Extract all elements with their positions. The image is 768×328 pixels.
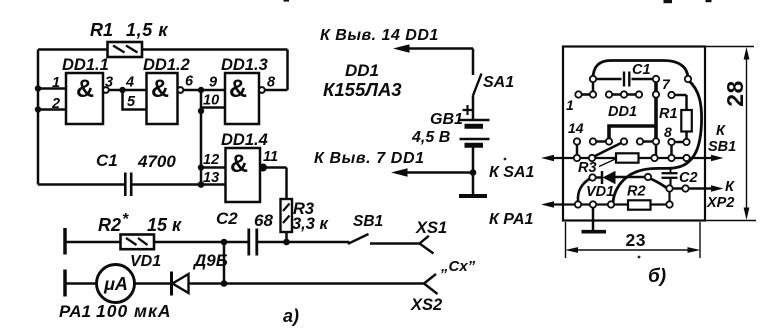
label SB1 [353, 213, 383, 230]
pads misc [574, 76, 691, 208]
trace left S curve [578, 178, 593, 205]
wire pin2 [38, 108, 66, 111]
wire pin11 to R3 [266, 168, 287, 200]
trace row B links [593, 140, 656, 143]
capacitor C1 [125, 173, 131, 197]
label uA [103, 274, 128, 294]
svg-text:3,3 к: 3,3 к [292, 215, 330, 233]
pin labels 4 5 [125, 75, 136, 111]
svg-text:μА: μА [103, 274, 128, 294]
wire C1 row pin13 [38, 183, 226, 186]
pin labels 6 9 [185, 74, 217, 91]
gate DD1.3 [225, 73, 265, 124]
arrow to vyv14 [393, 44, 410, 52]
trace pin1-pin2 link [579, 93, 594, 96]
svg-text:28: 28 [722, 80, 748, 107]
resistor R1 [108, 42, 143, 57]
label 28 [722, 80, 748, 107]
label VD1 Д9Б [130, 251, 228, 270]
trace R3 row / K SB1 [548, 157, 712, 159]
wire to pin14 arrow [406, 47, 473, 50]
svg-text:6: 6 [185, 74, 194, 90]
arrow K PA1 [541, 201, 554, 208]
svg-text:SA1: SA1 [483, 74, 514, 91]
trace C1 row [593, 78, 656, 81]
svg-text:XS1: XS1 [415, 219, 447, 237]
pcb pin labels [566, 76, 672, 140]
label SA1 [483, 74, 514, 91]
wire R3 bottom [285, 232, 288, 242]
label DD1.2 [143, 56, 190, 103]
svg-text:DD1: DD1 [345, 61, 379, 80]
svg-text:9: 9 [209, 75, 217, 91]
diode VD1 pcb [593, 171, 616, 184]
wire pin8 [265, 89, 288, 92]
svg-text:К: К [725, 179, 735, 195]
gate DD1.1 [66, 73, 109, 124]
svg-text:68: 68 [254, 211, 273, 230]
wire pin1 [38, 87, 66, 90]
label DD1.4 [221, 131, 268, 178]
label DD1.3 [221, 56, 268, 103]
svg-text:&: & [151, 75, 169, 103]
node pin3 junction [119, 87, 125, 93]
pin label 11 [263, 149, 278, 165]
label GB1 4,5 B [411, 111, 463, 146]
svg-text:VD1: VD1 [130, 253, 161, 270]
svg-text:К Выв. 14 DD1: К Выв. 14 DD1 [320, 27, 439, 44]
svg-text:&: & [230, 150, 248, 178]
svg-text:12: 12 [203, 152, 219, 168]
svg-text:а): а) [283, 306, 299, 326]
trace R2 right riser [668, 189, 670, 205]
label K SA1 [489, 164, 535, 181]
svg-text:R2: R2 [627, 184, 646, 200]
node center rail [198, 108, 204, 114]
gate DD1.2 [147, 73, 184, 124]
board outline [563, 47, 705, 221]
svg-text:С2: С2 [679, 170, 698, 186]
label C1 pcb [632, 62, 651, 78]
wire left rail [37, 50, 40, 185]
svg-text:GB1: GB1 [430, 111, 463, 128]
label XS2 [410, 296, 442, 314]
svg-text:ХР2: ХР2 [706, 195, 734, 211]
label VD1 pcb [586, 184, 614, 200]
svg-text:С1: С1 [96, 151, 118, 170]
pin labels 12 13 [203, 152, 219, 186]
svg-text:R1: R1 [90, 20, 113, 40]
terminal bar wire2 [63, 270, 67, 297]
svg-text:4: 4 [125, 75, 134, 91]
label C2 pcb [679, 170, 698, 186]
meter PA1 [97, 265, 135, 303]
resistor R2 [121, 235, 155, 250]
trace top arc [593, 61, 688, 80]
label K PA1 [489, 211, 534, 228]
connector XS1 [420, 236, 434, 254]
svg-text:DD1.3: DD1.3 [221, 56, 268, 74]
label C2 68 [216, 209, 273, 230]
svg-text:23: 23 [626, 230, 646, 250]
node C1 rail junction [198, 181, 205, 188]
wire PA1 to VD1 [135, 282, 172, 285]
resistor R2 pcb [628, 200, 651, 209]
trace pins 3-4-5 link [609, 93, 639, 96]
svg-text:10: 10 [203, 93, 219, 109]
svg-text:*: * [122, 211, 129, 228]
wire to pin7 arrow [404, 171, 473, 174]
label DD1 K155LA3 [323, 61, 402, 100]
wire pin5 branch [123, 90, 147, 110]
node VD1 branch top [221, 239, 228, 246]
stray dot near K [504, 158, 507, 161]
label K vyv 7 DD1 [314, 150, 425, 167]
label b) [648, 266, 666, 287]
arrow K SA1 [541, 155, 554, 162]
svg-text:15 к: 15 к [147, 215, 182, 235]
gate DD1.4 [226, 148, 267, 202]
svg-text:К: К [716, 123, 726, 139]
wire VD1 branch [223, 242, 226, 284]
terminal bar wire1 [63, 228, 67, 255]
svg-text:б): б) [648, 266, 666, 287]
trace K PA1 row [548, 203, 670, 205]
svg-text:1: 1 [52, 75, 60, 91]
wire top rail [38, 50, 288, 91]
label R1 pcb [659, 106, 678, 122]
ground [582, 205, 607, 232]
wire R2 row [65, 241, 349, 244]
wire pin3 to pin4 [109, 89, 147, 92]
label a) [283, 306, 299, 326]
stray mark 3 [706, 0, 712, 2]
label R1 1,5 к [90, 20, 168, 40]
svg-text:DD1.1: DD1.1 [62, 56, 109, 74]
svg-text:3: 3 [105, 75, 113, 91]
svg-text:4700: 4700 [137, 152, 176, 171]
svg-text:К РА1: К РА1 [489, 211, 534, 228]
svg-text:VD1: VD1 [586, 184, 614, 200]
svg-text:„Сх”: „Сх” [440, 258, 476, 275]
resistor R1 pcb [681, 95, 692, 142]
wire pin10 branch [201, 90, 225, 108]
label Cx [440, 258, 476, 275]
arrow K SB1 [711, 155, 724, 162]
svg-text:4,5 В: 4,5 В [411, 129, 450, 146]
svg-text:К155ЛА3: К155ЛА3 [323, 79, 402, 100]
trace K XP2 row [668, 187, 713, 190]
trace C2 top stub [670, 168, 672, 173]
label R3 pcb [578, 160, 597, 176]
label XS1 [415, 219, 447, 237]
svg-text:R2: R2 [98, 215, 121, 235]
label 23 [626, 230, 646, 250]
switch SA1 [473, 49, 482, 96]
trace right long arc to wavy trace [613, 80, 702, 205]
dimension 23 [565, 222, 701, 258]
svg-text:8: 8 [664, 124, 672, 140]
label K vyv 14 DD1 [320, 27, 439, 44]
trace pad14 link [576, 142, 579, 159]
node rail-pin2 [35, 106, 41, 112]
arrow K XP2 [711, 185, 724, 192]
pin label 10 [203, 93, 219, 109]
node R3 bottom [283, 239, 290, 246]
trace center thick vertical [654, 79, 658, 142]
svg-text:SB1: SB1 [353, 213, 383, 230]
node battery junction [470, 169, 477, 176]
svg-text:8: 8 [267, 75, 276, 91]
node rail-pin1 [35, 85, 41, 91]
node pin12 junction [198, 164, 204, 170]
svg-text:SB1: SB1 [708, 139, 736, 155]
svg-text:К SA1: К SA1 [489, 164, 535, 181]
label K SB1 [708, 123, 736, 155]
svg-text:Д9Б: Д9Б [192, 251, 228, 270]
label R2 pcb [627, 184, 646, 200]
wire center rail down [200, 108, 203, 185]
trace pad 656 down [655, 142, 658, 159]
svg-text:С1: С1 [632, 62, 651, 78]
trace diagonal to R3 row [592, 142, 624, 158]
pads lower row [574, 138, 675, 145]
node pin6 junction [198, 87, 204, 93]
svg-text:14: 14 [568, 120, 584, 136]
resistor R3 pcb [616, 153, 639, 162]
pads upper row [575, 91, 674, 98]
battery GB1 [459, 96, 490, 197]
label R3 3,3 к [292, 200, 330, 233]
svg-text:5: 5 [127, 94, 136, 110]
stray mark 2 [664, 0, 673, 3]
trace pin8 down [670, 142, 673, 158]
trace pin7 to R1 [672, 94, 687, 97]
svg-text:2: 2 [51, 96, 60, 112]
svg-text:11: 11 [263, 149, 278, 165]
capacitor C2 [249, 229, 257, 256]
trace C2 bottom stub [669, 178, 671, 189]
label R3 pcb pointer [599, 159, 617, 167]
node VD1 branch bottom [221, 280, 228, 287]
svg-text:&: & [76, 75, 94, 103]
switch SB1 [347, 234, 368, 244]
trace diode to mid pad [616, 176, 646, 179]
diode VD1 [172, 272, 189, 296]
capacitor C2 pcb [662, 173, 678, 178]
wire PA1 left [65, 282, 97, 285]
svg-text:К Выв. 7 DD1: К Выв. 7 DD1 [314, 150, 425, 167]
trace pin2 up [592, 79, 595, 95]
capacitor C1 pcb [624, 72, 629, 87]
wire pin12 [201, 166, 226, 169]
wire VD1 to XS2 [189, 282, 425, 285]
label K XP2 [706, 179, 735, 211]
label R2* 15 к [98, 211, 182, 235]
svg-text:DD1.2: DD1.2 [143, 56, 190, 74]
svg-text:1: 1 [566, 97, 574, 113]
arrow to vyv7 [391, 168, 408, 176]
wire pin6 to pin9 [183, 89, 225, 92]
svg-text:XS2: XS2 [410, 296, 442, 314]
resistor R3 [281, 199, 293, 232]
svg-text:1,5 к: 1,5 к [126, 20, 168, 40]
svg-text:7: 7 [662, 76, 671, 92]
pin labels 1 2 3 [51, 75, 113, 113]
label PA1 100 мкА [59, 301, 172, 321]
connector XS2 [424, 274, 438, 294]
label C1 4700 [96, 151, 176, 171]
svg-text:РА1: РА1 [59, 302, 91, 321]
stray mark 1 [284, 0, 290, 2]
pin label 8 [267, 75, 276, 91]
svg-text:DD1.4: DD1.4 [221, 131, 268, 149]
svg-text:DD1: DD1 [608, 104, 637, 120]
trace mid pad diag to XP2 row [648, 178, 668, 189]
wire SB1 to XS1 [370, 242, 420, 245]
dimension 28 [705, 47, 756, 221]
svg-text:С2: С2 [216, 209, 238, 228]
trace pin8 to R1 pad [672, 141, 687, 144]
svg-text:R1: R1 [659, 106, 678, 122]
trace thick L [609, 126, 656, 142]
svg-text:100 мкА: 100 мкА [96, 301, 172, 321]
stray dot below 23 [638, 256, 641, 259]
label DD1.1 [62, 56, 109, 103]
svg-text:&: & [229, 75, 247, 103]
